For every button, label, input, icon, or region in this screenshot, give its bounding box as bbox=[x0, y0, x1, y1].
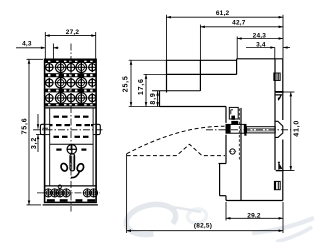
relay dashed outline bbox=[127, 126, 225, 155]
arrows bbox=[28, 16, 292, 232]
42.7 bbox=[199, 25, 201, 61]
bottom base line bbox=[43, 204, 98, 206]
29.2 bbox=[225, 202, 227, 221]
41.0 bbox=[284, 91, 295, 93]
dashed rows bbox=[50, 116, 93, 151]
svg-text:41,0: 41,0 bbox=[294, 120, 301, 137]
svg-text:27,2: 27,2 bbox=[66, 29, 80, 36]
flange bbox=[244, 124, 246, 136]
rail column walls bbox=[274, 59, 276, 91]
mid horizontal bbox=[50, 143, 93, 145]
24.3 bbox=[236, 36, 238, 58]
hatch rect bottom bbox=[274, 181, 280, 189]
bottom block top bbox=[45, 185, 97, 187]
right step down to bracket bbox=[236, 59, 238, 75]
17.6 bbox=[144, 73, 167, 75]
svg-text:25,5: 25,5 bbox=[123, 75, 130, 92]
right oval bbox=[76, 163, 85, 173]
centerlines front bbox=[33, 44, 103, 212]
left bump bbox=[40, 124, 44, 134]
bottom DIN hook bbox=[276, 162, 284, 171]
housing column bbox=[225, 107, 227, 123]
seat line bbox=[160, 106, 227, 108]
3.2 bbox=[37, 114, 39, 129]
svg-text:8,9: 8,9 bbox=[150, 92, 157, 104]
61.2 bbox=[166, 15, 168, 61]
small circle in base bbox=[230, 149, 235, 154]
svg-text:3,2: 3,2 bbox=[31, 137, 38, 149]
svg-text:75,6: 75,6 bbox=[21, 118, 28, 135]
body outline bbox=[45, 59, 97, 202]
shaft bbox=[247, 127, 276, 133]
bump inner ticks bbox=[45, 124, 96, 134]
svg-text:17,6: 17,6 bbox=[138, 78, 145, 95]
svg-text:4,3: 4,3 bbox=[22, 41, 32, 48]
base bbox=[219, 163, 227, 165]
center screw bbox=[67, 144, 78, 155]
watermark bbox=[124, 200, 314, 242]
25.5 bbox=[129, 59, 167, 61]
75.6 bbox=[27, 58, 44, 60]
4.3 bbox=[52, 44, 54, 60]
inner verticals bbox=[49, 108, 51, 186]
dimension texts bbox=[21, 10, 300, 229]
side centerline bbox=[206, 129, 291, 131]
svg-text:61,2: 61,2 bbox=[216, 10, 230, 17]
foot bbox=[159, 91, 161, 107]
grid bottom line bbox=[45, 107, 97, 109]
screw head bbox=[275, 121, 283, 137]
seat ext bbox=[129, 106, 160, 108]
8.9 bbox=[157, 91, 159, 107]
svg-text:(82,5): (82,5) bbox=[194, 222, 212, 229]
hidden edge dashed bbox=[238, 109, 240, 161]
screw barrel bbox=[226, 124, 244, 133]
terminal grid bbox=[45, 60, 95, 107]
left oval bbox=[60, 162, 69, 172]
svg-text:29,2: 29,2 bbox=[247, 212, 261, 219]
right bump bbox=[96, 124, 100, 134]
27.2 bbox=[44, 32, 46, 59]
lower crescent bbox=[71, 170, 80, 177]
slot bbox=[70, 154, 75, 171]
svg-text:3,4: 3,4 bbox=[256, 41, 266, 48]
hatch rect top bbox=[274, 73, 280, 81]
screw yoke bbox=[229, 107, 238, 124]
82.5 bbox=[126, 154, 128, 233]
bottom screws bbox=[44, 185, 98, 197]
svg-text:24,3: 24,3 bbox=[253, 32, 267, 39]
top DIN hook bbox=[274, 91, 283, 101]
svg-text:42,7: 42,7 bbox=[232, 20, 246, 27]
3.4 bbox=[274, 48, 276, 59]
terraces bbox=[167, 59, 237, 61]
